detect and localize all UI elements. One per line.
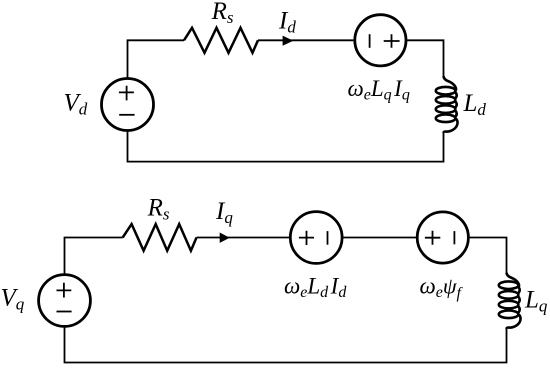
voltage source V_q circle	[39, 275, 91, 327]
plus inside source 1	[299, 231, 314, 245]
current arrow I_q	[220, 233, 230, 243]
wire: top-left corner, V_d top lead up and right to resistor	[128, 40, 185, 77]
resistor R_s (bottom)	[123, 224, 197, 251]
wire: resistor to controlled source 1	[197, 237, 290, 239]
bar (minus) inside source 2	[453, 231, 455, 244]
resistor R_s (top)	[184, 28, 258, 53]
controlled voltage source circle (top), polarity | +	[355, 15, 406, 66]
controlled voltage source circle 2 (bottom), polarity + |	[417, 212, 468, 263]
wire: inductor down, bottom wire, up to V_q bottom	[65, 326, 507, 363]
plus inside V_q	[57, 283, 72, 298]
svg-text:ωeLqIq: ωeLqIq	[348, 76, 410, 104]
plus inside top source	[384, 34, 400, 48]
current arrow I_d	[283, 36, 294, 46]
wire: resistor to controlled source (top)	[258, 39, 353, 41]
wire: inductor down, bottom wire, up to V_d bottom	[128, 132, 444, 162]
bar (minus) inside top source	[369, 34, 371, 48]
inductor L_d coil	[436, 76, 458, 133]
minus inside V_d	[119, 114, 134, 116]
wire: V_q top lead up, top-left corner, right to resistor	[65, 238, 123, 275]
svg-text:ωeLdId: ωeLdId	[284, 274, 347, 302]
voltage source V_d circle	[102, 79, 154, 131]
wire: source 2 to top-right corner, down to inductor	[468, 238, 507, 274]
wire: controlled source to top-right corner, down to inductor	[405, 40, 444, 76]
bar (minus) inside source 1	[327, 231, 329, 245]
inductor L_q coil	[499, 273, 521, 329]
plus inside source 2	[425, 231, 440, 245]
wire: source 1 to source 2	[342, 237, 417, 239]
minus inside V_q	[57, 311, 72, 313]
controlled voltage source circle 1 (bottom), polarity + |	[290, 212, 342, 264]
plus inside V_d	[119, 86, 134, 101]
